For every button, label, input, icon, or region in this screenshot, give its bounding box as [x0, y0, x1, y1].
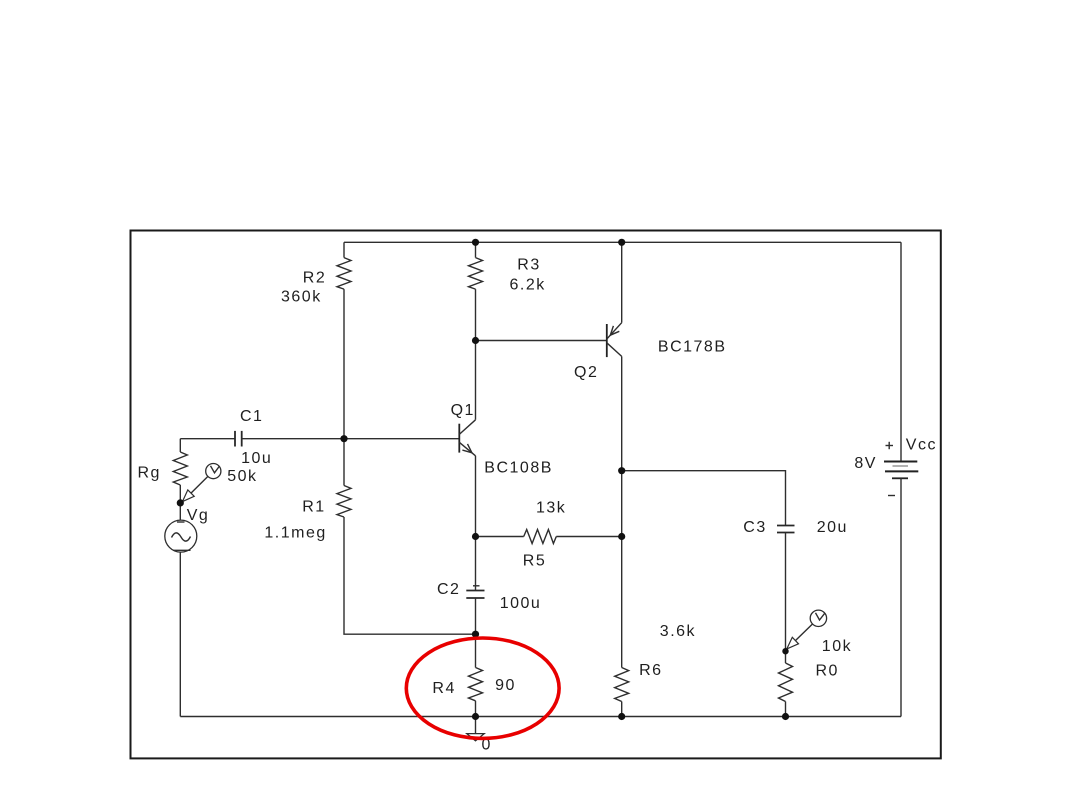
wire Q2 emitter to top rail	[621, 242, 623, 322]
wire C1 left lead	[180, 438, 235, 440]
resistor R0	[779, 663, 793, 702]
wire R0 top stub	[785, 651, 787, 663]
junction node top R3	[472, 239, 479, 246]
svg-text:Q1: Q1	[451, 402, 475, 419]
wire Rg bottom to Vg	[179, 485, 181, 520]
junction node C2 bottom	[472, 631, 479, 638]
svg-text:R5: R5	[523, 553, 546, 570]
wire R1 bottom jog to C2 node	[344, 517, 476, 634]
transistor Q2 BC178B	[607, 323, 622, 357]
potentiometer tap marker 50k	[183, 464, 221, 502]
wire battery top lead	[900, 242, 902, 461]
capacitor C2	[466, 586, 484, 598]
wire R3 bottom to Q1 collector	[475, 289, 477, 420]
junction node Vg top	[177, 499, 184, 506]
wire battery bottom lead	[900, 478, 902, 716]
resistor R5	[524, 530, 557, 544]
svg-text:R3: R3	[517, 257, 540, 274]
wire R5 left lead	[476, 536, 524, 538]
wire R6 bottom stub	[621, 702, 623, 717]
resistor R3	[469, 258, 483, 290]
resistor Rg	[173, 452, 187, 485]
svg-text:90: 90	[495, 677, 516, 694]
capacitor C1	[235, 431, 242, 447]
wire Q2 base	[476, 340, 607, 342]
svg-text:10u: 10u	[241, 450, 272, 467]
wire C1 right to Q1 base	[242, 438, 460, 440]
svg-text:20u: 20u	[817, 519, 848, 536]
svg-text:13k: 13k	[536, 500, 566, 517]
red annotation ellipse around R4	[406, 638, 559, 738]
resistor R4	[469, 668, 483, 701]
junction node Q2 base	[472, 337, 479, 344]
junction node R5 right	[618, 533, 625, 540]
svg-text:R0: R0	[816, 663, 839, 680]
svg-text:10k: 10k	[822, 638, 852, 655]
resistor R2	[337, 258, 351, 290]
svg-text:R6: R6	[639, 662, 662, 679]
svg-text:Vcc: Vcc	[906, 437, 937, 454]
wire Q1 emitter down to C2	[475, 456, 477, 591]
battery minus sign	[888, 495, 895, 497]
ground symbol 0	[467, 734, 484, 741]
wire R5 right lead	[556, 536, 621, 538]
svg-text:R4: R4	[432, 680, 455, 697]
wire top supply rail	[344, 241, 901, 243]
wire R2 bottom to base node	[343, 289, 345, 485]
svg-text:3.6k: 3.6k	[660, 623, 696, 640]
junction node Q1 emitter R5	[472, 533, 479, 540]
svg-text:C3: C3	[743, 519, 766, 536]
svg-text:C2: C2	[437, 581, 460, 598]
resistor R1	[337, 486, 351, 518]
transistor Q1 BC108B	[459, 420, 475, 456]
wire R3 top stub	[475, 242, 477, 257]
wire R4 bottom stub	[475, 701, 477, 717]
wire C2 bottom to node	[475, 598, 477, 634]
wire Rg top stub	[179, 439, 181, 452]
svg-text:100u: 100u	[500, 595, 542, 612]
svg-text:R1: R1	[302, 499, 325, 516]
potentiometer tap marker 10k	[787, 610, 827, 649]
svg-text:BC178B: BC178B	[658, 339, 727, 356]
wire bottom ground rail	[180, 716, 901, 718]
wire C3 bottom to R0	[785, 533, 787, 652]
source Vg	[165, 520, 197, 552]
junction node R0 tap	[782, 648, 788, 654]
svg-text:8V: 8V	[854, 455, 877, 472]
junction node Q1 base	[340, 435, 347, 442]
wire Vg bottom to ground rail	[179, 552, 181, 716]
wire Q2 collector down	[621, 356, 623, 667]
svg-text:360k: 360k	[281, 288, 322, 305]
svg-text:BC108B: BC108B	[484, 460, 553, 477]
svg-text:6.2k: 6.2k	[510, 277, 546, 294]
wire ground stub	[475, 717, 477, 734]
wire output node to C3	[622, 471, 786, 526]
battery plus sign	[886, 442, 894, 449]
svg-text:1.1meg: 1.1meg	[264, 524, 326, 541]
svg-text:R2: R2	[303, 269, 326, 286]
resistor R6	[615, 668, 629, 702]
svg-text:C1: C1	[240, 408, 263, 425]
svg-text:50k: 50k	[227, 468, 257, 485]
junction node R6 ground	[618, 713, 625, 720]
svg-text:Rg: Rg	[138, 465, 161, 482]
battery Vcc 8V	[884, 462, 918, 479]
junction node top Q2 emitter	[618, 239, 625, 246]
wire R4 top stub	[475, 634, 477, 667]
wire R0 bottom stub	[785, 702, 787, 717]
wire R2 top stub	[343, 242, 345, 257]
svg-text:Vg: Vg	[187, 507, 210, 524]
capacitor C3	[777, 526, 795, 533]
svg-text:Q2: Q2	[574, 364, 598, 381]
junction node R4 ground	[472, 713, 479, 720]
junction node output	[618, 467, 625, 474]
junction node R0 ground	[782, 713, 789, 720]
